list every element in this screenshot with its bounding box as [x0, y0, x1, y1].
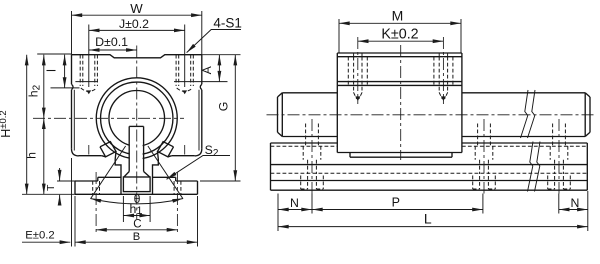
svg-text:M: M [392, 7, 404, 23]
svg-text:K±0.2: K±0.2 [381, 27, 418, 43]
svg-text:A: A [200, 65, 214, 74]
svg-text:l: l [45, 69, 59, 72]
svg-text:J±0.2: J±0.2 [119, 17, 149, 31]
svg-text:h: h [25, 152, 39, 159]
svg-text:W: W [130, 1, 143, 16]
svg-text:N: N [571, 196, 580, 210]
svg-text:L: L [424, 210, 432, 226]
svg-text:4-S1: 4-S1 [213, 15, 242, 30]
svg-text:C: C [133, 218, 141, 230]
svg-text:N: N [290, 196, 299, 210]
svg-text:G: G [216, 102, 230, 112]
svg-text:D±0.1: D±0.1 [95, 35, 128, 49]
svg-text:P: P [392, 196, 400, 210]
svg-text:θ: θ [134, 192, 141, 206]
svg-text:E±0.2: E±0.2 [25, 229, 54, 241]
svg-text:B: B [133, 231, 140, 243]
svg-text:T: T [45, 184, 57, 191]
